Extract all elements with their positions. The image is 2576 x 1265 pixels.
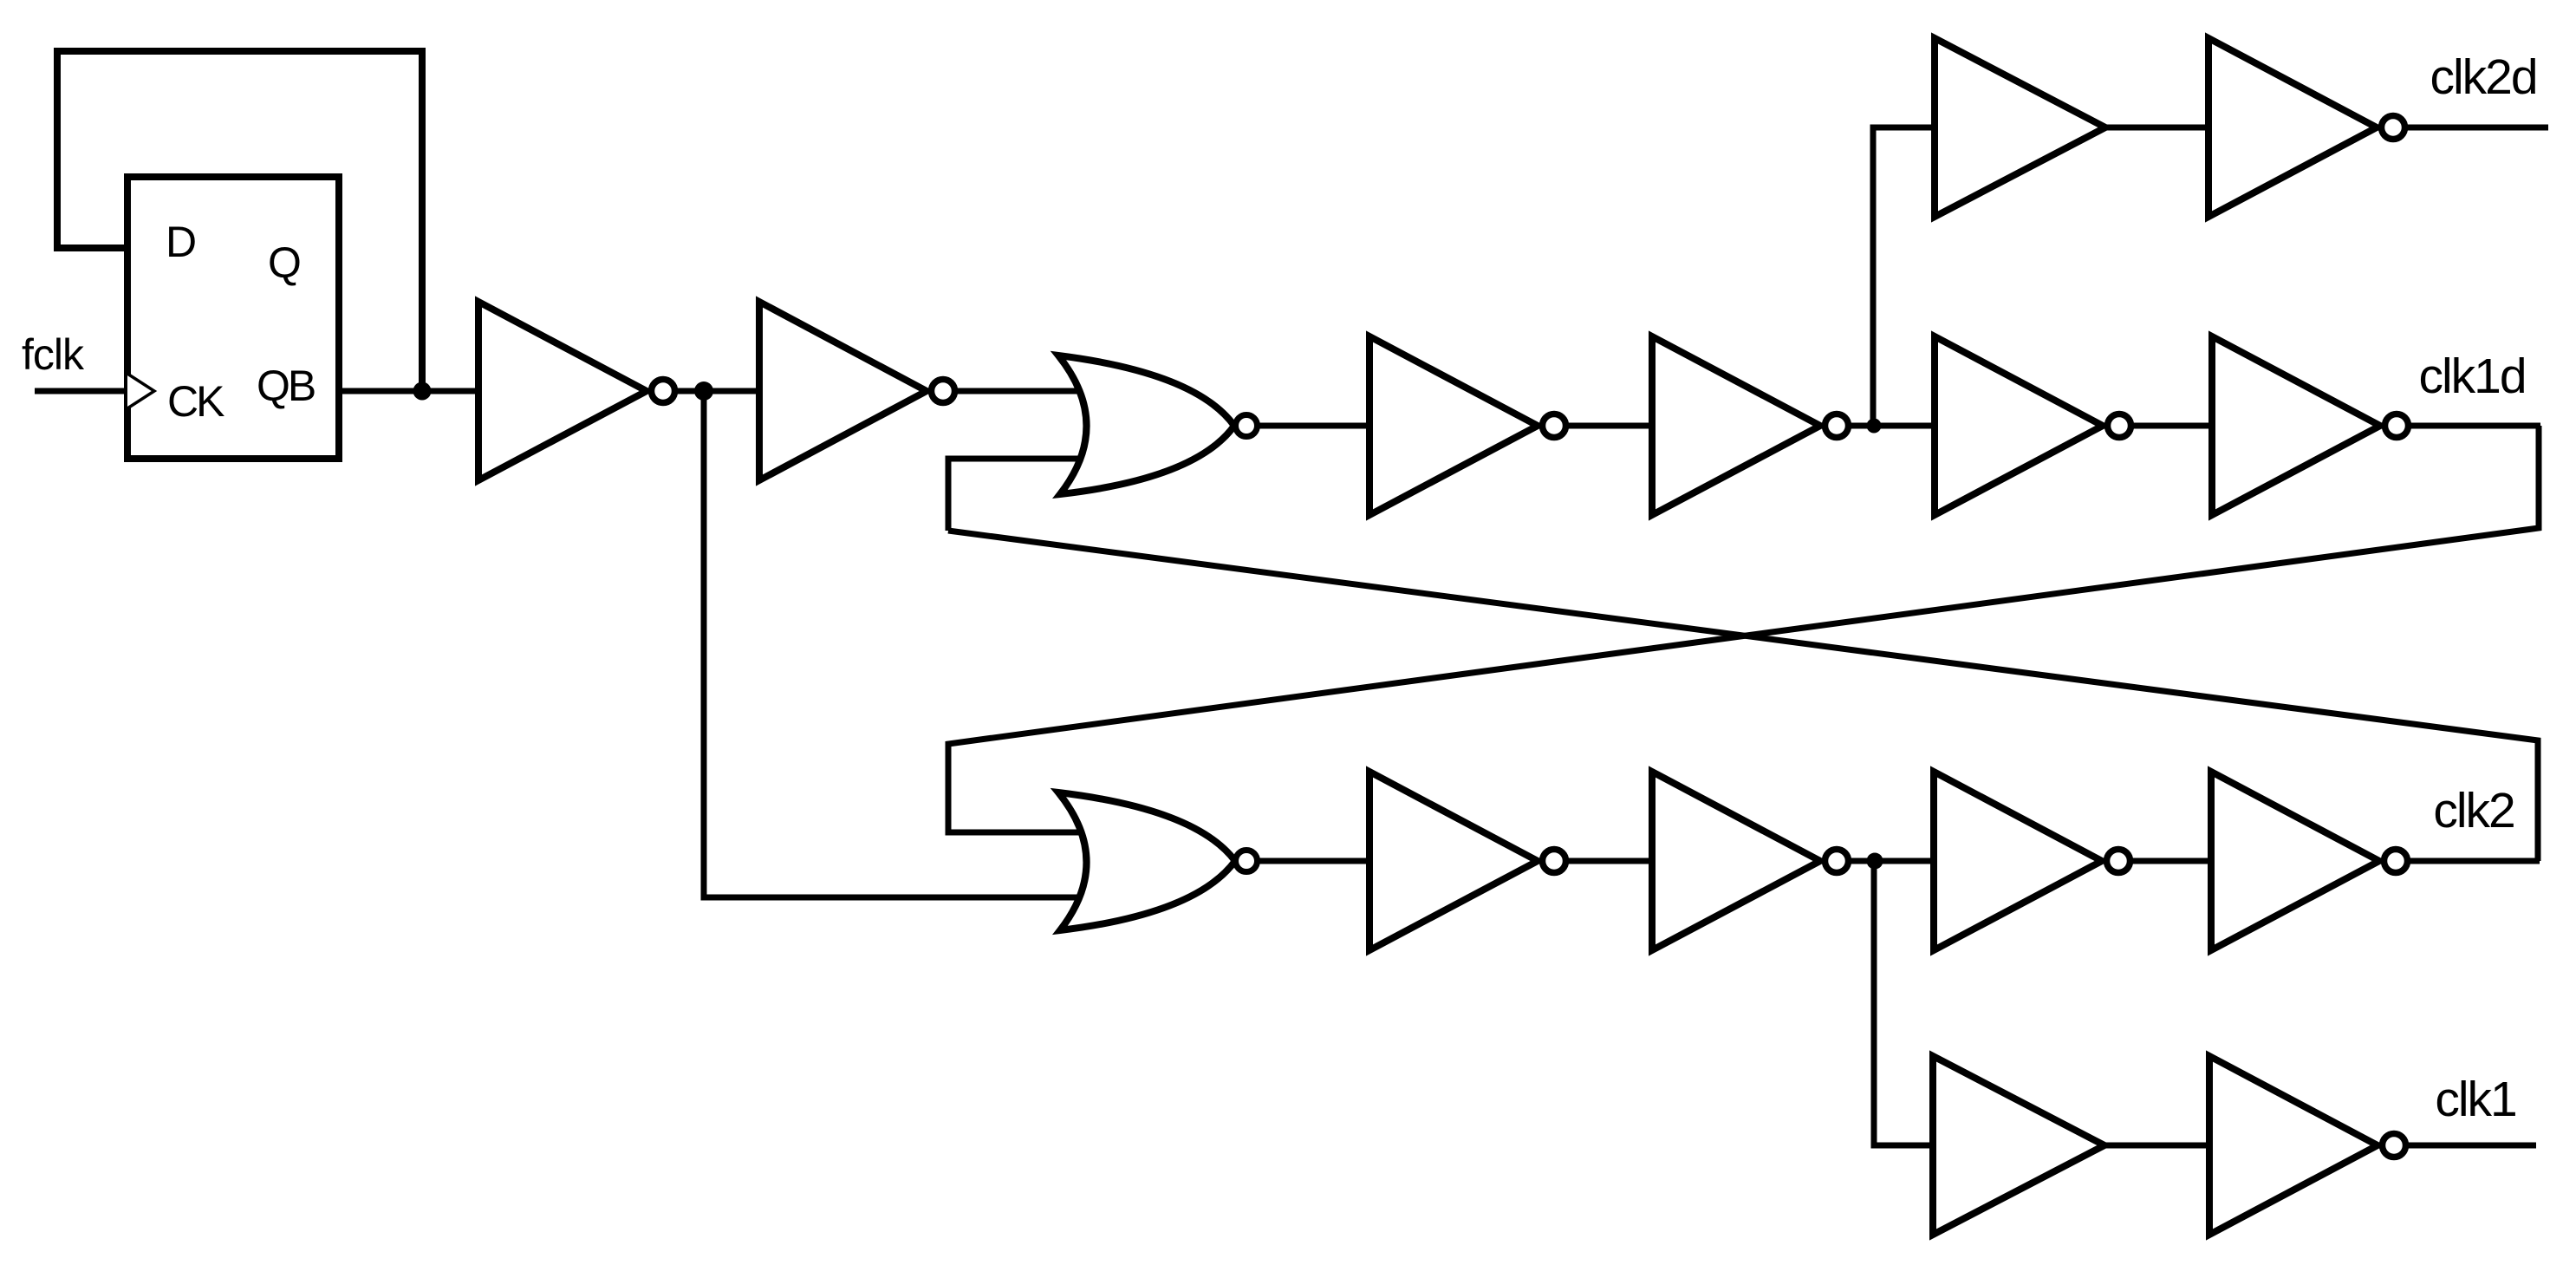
NOR gate U11 [1058, 792, 1235, 930]
inverter U7 [1935, 336, 2103, 515]
svg-text:D: D [166, 218, 197, 266]
svg-text:clk2d: clk2d [2430, 49, 2536, 105]
buffer U9 [1935, 38, 2105, 217]
node D junction dot [1867, 853, 1883, 870]
bubble U15 [2384, 850, 2408, 873]
svg-text:CK: CK [167, 377, 224, 426]
wire U9 to U10 [2105, 125, 2208, 131]
svg-text:fclk: fclk [22, 330, 85, 379]
svg-text:clk2: clk2 [2433, 783, 2514, 838]
svg-text:QB: QB [257, 362, 315, 410]
node A junction dot [413, 382, 432, 401]
bubble U14 [2107, 850, 2130, 873]
bubble U4 [1236, 415, 1258, 437]
node B junction dot [694, 381, 713, 401]
inverter U6 [1652, 336, 1820, 515]
D flip-flop U1 [127, 177, 339, 459]
clock edge marker [127, 374, 154, 408]
bubble U11 [1236, 851, 1258, 872]
bubble U6 [1825, 414, 1849, 438]
inverter U3 [759, 302, 927, 480]
wire clk2 output [2408, 858, 2540, 864]
wire U12 to U13 [1566, 858, 1652, 864]
inverter U2 [478, 302, 647, 480]
wire U5 to U6 [1566, 423, 1652, 429]
inverter U5 [1369, 336, 1538, 515]
wire QB output [339, 388, 478, 394]
wire diagonal A NOR1 feedback from clk2 [948, 531, 2538, 861]
svg-text:Q: Q [268, 238, 302, 287]
bubble U8 [2385, 414, 2409, 438]
wire node C up to clk2d branch [1873, 127, 1935, 426]
wire node B down to NOR2 lower input [704, 391, 1085, 897]
bubble U3 [932, 380, 955, 403]
inverter U12 [1369, 772, 1538, 950]
wire fclk input to CK [35, 388, 127, 394]
inverter U8 [2212, 336, 2380, 515]
bubble U13 [1825, 850, 1849, 873]
wire NOR2 to U12 [1258, 858, 1369, 864]
bubble U12 [1543, 850, 1566, 873]
wire U7 to U8 [2131, 423, 2212, 429]
bubble U2 [652, 380, 675, 403]
wire node D down to clk1 branch [1874, 861, 1932, 1145]
wire U3 to NOR1 upper input [955, 388, 1085, 394]
bubble U7 [2108, 414, 2131, 438]
wire clk2d output [2405, 125, 2548, 131]
bubble U5 [1543, 414, 1566, 438]
inverter U10 [2208, 38, 2377, 217]
svg-text:clk1d: clk1d [2418, 349, 2525, 404]
bubble U10 [2382, 116, 2405, 140]
wire U14 to U15 [2130, 858, 2211, 864]
wire U13 to U14 [1849, 858, 1934, 864]
svg-text:clk1: clk1 [2435, 1072, 2515, 1127]
wire U16 to U17 [2104, 1143, 2209, 1149]
inverter U15 [2211, 772, 2379, 950]
wire U6 to U7 [1849, 423, 1935, 429]
wire clk1 output [2406, 1143, 2536, 1149]
wire clk1d feedback down [948, 426, 2539, 832]
wire U2 to U3 [675, 388, 759, 394]
inverter U13 [1652, 772, 1820, 950]
bubble U17 [2383, 1134, 2406, 1157]
inverter U14 [1934, 772, 2102, 950]
wire clk1d output [2409, 423, 2540, 429]
NOR gate U4 [1058, 355, 1234, 494]
node C junction dot [1867, 419, 1882, 434]
wire feedback Q to D top loop [57, 51, 422, 391]
inverter U17 [2209, 1056, 2378, 1235]
wire NOR1 to U5 [1258, 423, 1369, 429]
wire NOR1 lower input feedback stub [948, 459, 1085, 531]
buffer U16 [1933, 1056, 2104, 1235]
